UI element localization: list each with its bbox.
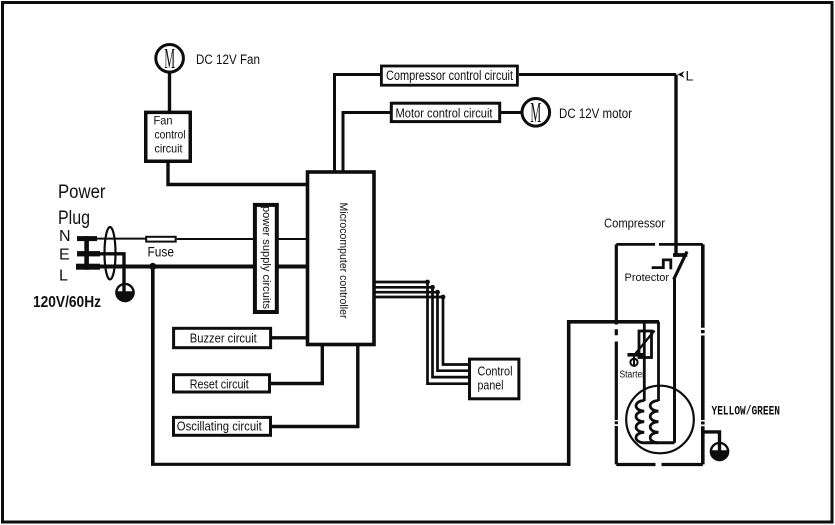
compressor enclosure right edge (701, 244, 705, 464)
wire bundle B (374, 287, 468, 377)
wire oscillating to microcomputer (272, 345, 358, 427)
wire starter feed down (643, 322, 646, 401)
svg-text:Plug: Plug (58, 207, 90, 229)
svg-text:N: N (59, 228, 71, 245)
svg-text:Control: Control (478, 365, 513, 379)
wire fan control circuit to microcomputer controller (168, 161, 308, 184)
wire N to fuse (97, 238, 146, 240)
wire motor control circuit left leg (343, 113, 390, 173)
junction B (430, 285, 435, 290)
wire bundle C (374, 292, 468, 371)
svg-text:Oscillating circuit: Oscillating circuit (177, 420, 262, 434)
power plug outline ellipse (105, 227, 116, 279)
wire power supply to microcomputer (upper) (279, 238, 308, 240)
starter diagonal (634, 331, 655, 356)
svg-text:Compressor control circuit: Compressor control circuit (386, 68, 513, 83)
junction L branch (149, 263, 156, 270)
wire buzzer to microcomputer (272, 336, 308, 339)
svg-text:Buzzer circuit: Buzzer circuit (190, 332, 257, 346)
wire reset to microcomputer (271, 345, 322, 384)
wire fuse to power supply circuits (177, 238, 253, 240)
fan motor M1 circle (156, 45, 184, 73)
power plug body bar (84, 236, 89, 270)
ground symbol (plug earth) (115, 284, 134, 301)
power supply circuits box (255, 205, 277, 312)
motor control circuit box (391, 103, 499, 121)
compressor enclosure bottom edge (616, 463, 703, 466)
wire protector to motor common (673, 279, 676, 443)
wire run winding drop (657, 322, 660, 401)
svg-text:Protector: Protector (625, 272, 670, 284)
wire motor control circuit to motor M2 (501, 111, 523, 114)
wire compressor control circuit to L line (519, 73, 676, 76)
starter PTC body (639, 331, 652, 358)
svg-text:Power: Power (58, 181, 106, 203)
svg-text:circuit: circuit (155, 142, 184, 156)
wire case to earth (703, 432, 720, 452)
wire motor coils bottom (644, 441, 675, 444)
svg-text:Fuse: Fuse (148, 244, 175, 260)
protector bimetal step contact (652, 260, 671, 269)
svg-text:DC 12V Fan: DC 12V Fan (196, 52, 260, 67)
svg-text:Reset circuit: Reset circuit (190, 378, 249, 392)
svg-text:M: M (530, 97, 541, 129)
svg-text:L: L (59, 268, 68, 285)
svg-text:M: M (164, 43, 175, 75)
power plug prong L (76, 264, 100, 270)
svg-text:Compressor: Compressor (604, 216, 666, 231)
control panel box (470, 359, 519, 399)
protector fixed contact bar (673, 253, 687, 257)
svg-text:Microcomputer controller: Microcomputer controller (337, 203, 349, 319)
svg-text:panel: panel (478, 379, 504, 393)
junction D (441, 295, 446, 300)
wire bottom run (151, 463, 569, 466)
svg-text:E: E (59, 247, 70, 264)
power plug prong N (77, 236, 97, 241)
buzzer circuit box (174, 328, 271, 347)
motor M2 circle (522, 99, 550, 127)
compressor control circuit box (381, 66, 517, 85)
junction C (435, 290, 440, 295)
compressor enclosure top edge (616, 243, 703, 246)
ground symbol (yellow/green earth) (710, 443, 729, 460)
oscillating circuit box (174, 417, 271, 435)
svg-text:Fan: Fan (154, 114, 173, 128)
svg-text:control: control (155, 128, 186, 142)
wire up to compressor starter (569, 322, 659, 466)
wire power supply to microcomputer (lower) (279, 265, 308, 269)
svg-text:Motor control circuit: Motor control circuit (396, 106, 493, 121)
svg-text:DC 12V motor: DC 12V motor (559, 106, 632, 121)
wire fan motor to fan control circuit (168, 71, 171, 111)
start winding coil (636, 401, 644, 443)
svg-text:120V/60Hz: 120V/60Hz (33, 294, 101, 311)
reset circuit box (174, 375, 270, 392)
wire compressor control circuit left leg (335, 75, 381, 173)
power plug prong E (77, 251, 100, 256)
wire E to ground (100, 254, 124, 292)
compressor motor circle (626, 386, 694, 454)
fan control circuit box (146, 112, 191, 161)
wire bundle A (374, 282, 468, 384)
protector switch blade (674, 252, 687, 280)
microcomputer controller box U1 (308, 172, 375, 345)
starter terminal circle (630, 359, 637, 366)
svg-text:power supply circuits: power supply circuits (260, 206, 272, 310)
starter terminal bar (628, 353, 644, 357)
compressor enclosure left edge (615, 244, 618, 464)
arrow L (678, 71, 685, 78)
svg-text:L: L (686, 68, 694, 84)
svg-text:YELLOW/GREEN: YELLOW/GREEN (712, 404, 781, 419)
wire L branch down (151, 267, 155, 465)
wire bundle D (374, 297, 468, 365)
fuse F1 (146, 237, 176, 242)
wire L to power supply circuits (100, 265, 253, 269)
svg-text:Starter: Starter (620, 370, 646, 381)
run winding coil (650, 401, 658, 443)
wire L line down to protector (674, 75, 677, 257)
junction A (425, 280, 430, 285)
starter terminal pin (633, 355, 635, 366)
